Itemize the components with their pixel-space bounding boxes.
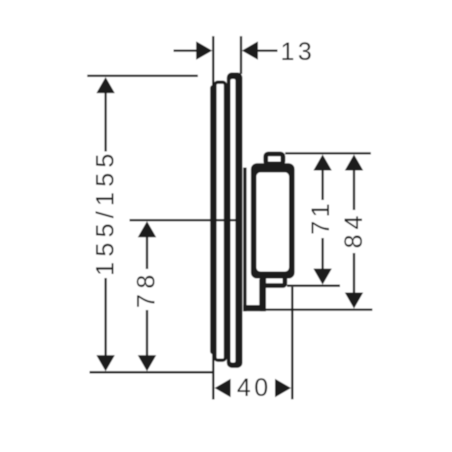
dimension 40: left extension line (212, 354, 214, 400)
top button (266, 154, 283, 164)
dimension 155/155: down arrow (96, 355, 114, 371)
svg-text:155/155: 155/155 (92, 148, 120, 275)
dimension 71: upper stem (321, 169, 323, 201)
dimension 84: down arrow (345, 293, 363, 309)
svg-text:78: 78 (133, 269, 161, 308)
dimension 71: lower stem (321, 238, 323, 271)
knob body inner white (256, 172, 289, 271)
shared bottom extension line (90, 371, 214, 373)
dimension 13: right extension line (240, 36, 242, 74)
dimension 78: middle extension line (130, 219, 243, 221)
dimension 78: up arrow (138, 221, 156, 237)
lower bracket right wall (259, 278, 266, 311)
middle mounting rectangle (215, 82, 226, 360)
dimension 13: right tail (256, 49, 278, 51)
right top extension line (285, 152, 371, 154)
dimension 13: left tail (174, 49, 200, 51)
dimension 40: right extension line (291, 287, 293, 399)
handle flange bar (243, 168, 246, 312)
dimension 78: lower stem (146, 310, 148, 362)
dimension 84: bottom extension line (266, 308, 372, 310)
dimension 155/155: upper stem (104, 91, 106, 152)
dimension 155/155: lower stem (104, 278, 106, 362)
dimension 40: right-pointing arrow (275, 379, 291, 397)
dimension 71: bottom extension line (287, 285, 340, 287)
front plate inner white (231, 79, 236, 363)
dimension 84: lower stem (353, 253, 355, 295)
svg-text:13: 13 (280, 38, 315, 66)
dimension 155/155: top extension line (87, 75, 198, 77)
dimension 71: down arrow (313, 269, 331, 285)
lower bracket bottom edge (243, 305, 266, 311)
dimension 78: down arrow (138, 355, 156, 371)
dimension 84: up arrow (345, 155, 363, 171)
dimension 40: left-pointing arrow (215, 379, 231, 397)
dimension 13: right-pointing arrow (196, 41, 212, 59)
bottom button (264, 274, 285, 285)
svg-text:84: 84 (340, 211, 368, 249)
dimension 155/155: up arrow (96, 77, 114, 93)
dimension 78: upper stem (146, 236, 148, 270)
dimension 71: up arrow (313, 155, 331, 171)
front plate outer profile (227, 73, 243, 368)
svg-text:40: 40 (237, 374, 272, 402)
dimension 84: upper stem (353, 169, 355, 211)
knob body (251, 163, 295, 278)
dimension 13: left-pointing arrow (242, 41, 258, 59)
wall-mount back bar (210, 85, 216, 354)
dimension 13: left extension line (212, 36, 214, 86)
svg-text:71: 71 (307, 200, 335, 235)
